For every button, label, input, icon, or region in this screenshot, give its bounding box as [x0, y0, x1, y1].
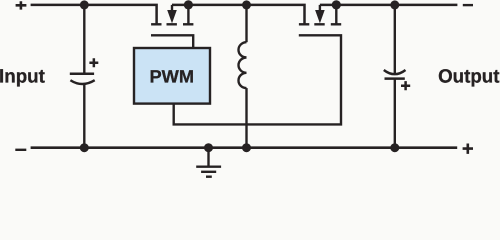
svg-text:PWM: PWM — [150, 67, 195, 87]
svg-text:Input: Input — [0, 67, 45, 88]
svg-text:Output: Output — [438, 67, 500, 88]
